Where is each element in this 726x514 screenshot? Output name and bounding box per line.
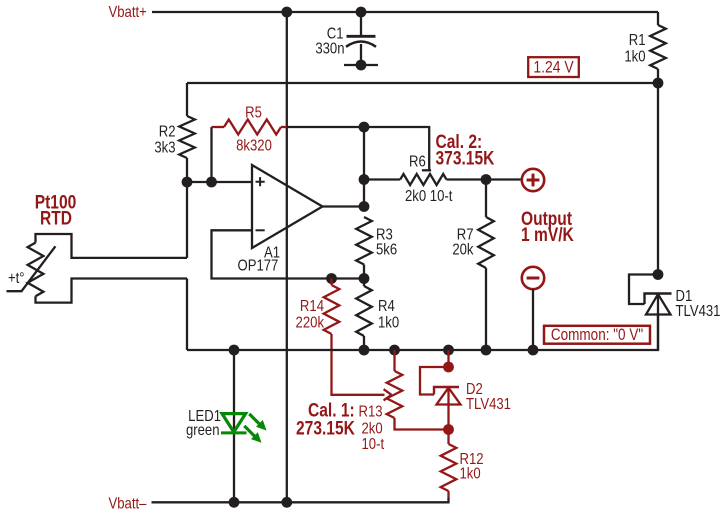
node Common: "0 V" callout box [544, 326, 650, 345]
svg-text:220k: 220k [296, 314, 325, 331]
svg-text:R5: R5 [245, 104, 262, 121]
svg-text:2k0 10-t: 2k0 10-t [405, 188, 452, 205]
wire C1 bottom bar [344, 64, 378, 66]
svg-text:R14: R14 [300, 298, 324, 315]
svg-text:373.15K: 373.15K [436, 147, 495, 169]
svg-text:20k: 20k [452, 241, 474, 258]
wire op-amp - input feedback [212, 230, 365, 278]
junction D2 bottom (red) [443, 424, 454, 435]
op-amp U1 body (A1 OP177) [238, 165, 323, 275]
resistor R4 1k0 [356, 279, 399, 351]
junction D1 cathode loop [653, 269, 664, 280]
wire R5 to R6 wiper [287, 127, 429, 170]
resistor R1 1k0 [624, 12, 665, 83]
junction rail / R4 [359, 345, 370, 356]
svg-text:5k6: 5k6 [376, 241, 397, 258]
sensor Pt100 RTD [7, 191, 188, 303]
junction + input / R5 [206, 177, 217, 188]
junction R1 bottom / 1.24V row [653, 78, 664, 89]
capacitor C1 330n [315, 12, 376, 65]
svg-text:OP177: OP177 [238, 257, 279, 274]
wire R6 row (y=179.5) [364, 178, 400, 180]
junction Vbatt- / supply line [281, 497, 292, 508]
svg-text:R6: R6 [409, 153, 426, 170]
potentiometer R6 2k0 10-t [400, 153, 452, 205]
junction D2 top (red) [443, 362, 454, 373]
svg-text:1k0: 1k0 [378, 314, 399, 331]
junction rail / D2 [443, 345, 454, 356]
svg-text:330n: 330n [315, 40, 344, 57]
resistor R14 220k [296, 279, 340, 335]
svg-text:Common: "0 V": Common: "0 V" [551, 326, 643, 345]
resistor R12 1k0 [441, 430, 484, 498]
node 1.24 V callout box [528, 57, 579, 77]
wire supply line Vbatt+ to Vbatt- [286, 12, 288, 502]
svg-text:Vbatt+: Vbatt+ [109, 4, 147, 21]
svg-text:273.15K: 273.15K [296, 417, 355, 439]
svg-text:10-t: 10-t [362, 436, 385, 453]
wire Vbatt- rail [152, 498, 449, 503]
shunt reference D1 TLV431 [629, 275, 720, 351]
junction top rail / supply line [281, 7, 292, 18]
svg-text:1k0: 1k0 [460, 465, 481, 482]
wire R14 to R13 wiper arrow [332, 334, 385, 395]
junction feedback / R3-R4 [359, 273, 370, 284]
resistor R7 20k [452, 180, 493, 351]
wire R5 left lead drop [210, 127, 212, 182]
LED1 green [186, 350, 267, 502]
junction C1 bottom [356, 60, 367, 71]
resistor R5 8k320 (feedback) [212, 104, 287, 154]
svg-text:green: green [186, 422, 220, 439]
svg-text:TLV431: TLV431 [676, 303, 721, 320]
svg-text:R13: R13 [359, 403, 383, 420]
potentiometer R13 2k0 10-t [359, 350, 449, 453]
junction Vbatt- / LED [229, 497, 240, 508]
label Cal. 2: 373.15K [436, 130, 495, 169]
junction rail / R7 [481, 345, 492, 356]
svg-text:8k320: 8k320 [236, 137, 272, 154]
svg-text:1k0: 1k0 [624, 48, 645, 65]
svg-text:R2: R2 [159, 123, 176, 140]
svg-text:Vbatt–: Vbatt– [109, 495, 148, 512]
svg-text:R1: R1 [629, 32, 646, 49]
wire 0V common rail [187, 315, 658, 351]
junction R5 row / R3 column [359, 122, 370, 133]
resistor R2 3k3 [154, 83, 194, 182]
svg-text:1 mV/K: 1 mV/K [521, 224, 574, 246]
junction + input / R2 / Pt100 [182, 177, 193, 188]
wire op-amp output [323, 205, 365, 207]
wire Pt100 top terminal riser [186, 182, 188, 258]
svg-text:1.24 V: 1.24 V [533, 58, 574, 77]
svg-text:3k3: 3k3 [154, 139, 175, 156]
junction output / R3 column [359, 201, 370, 212]
label Cal. 1: 273.15K [296, 399, 355, 439]
shunt reference D2 TLV431 [420, 350, 511, 430]
wire D1 column [657, 83, 659, 275]
wire 1.24V row (y=83) [187, 82, 658, 84]
terminal Output - [522, 267, 544, 289]
junction rail / - terminal [528, 345, 539, 356]
junction R6 row / R3 column [359, 174, 370, 185]
svg-text:+t°: +t° [8, 270, 25, 287]
junction rail / R13 [389, 345, 400, 356]
junction R6 row / R7 [481, 174, 492, 185]
terminal Output + [522, 169, 544, 191]
wire Vbatt+ top rail [152, 11, 658, 13]
wire - terminal to 0V rail [532, 289, 534, 350]
wire Pt100 bottom terminal to 0V rail [186, 279, 188, 351]
resistor R3 5k6 [356, 217, 397, 279]
svg-text:RTD: RTD [40, 207, 72, 229]
label Output 1 mV/K [521, 208, 574, 246]
junction rail / LED [229, 345, 240, 356]
junction top rail / C1 [356, 7, 367, 18]
junction feedback / R14 [326, 273, 337, 284]
svg-text:R4: R4 [378, 298, 395, 315]
svg-text:TLV431: TLV431 [466, 396, 511, 413]
wire R3 column top [363, 127, 365, 207]
wire op-amp + input row [187, 181, 252, 183]
